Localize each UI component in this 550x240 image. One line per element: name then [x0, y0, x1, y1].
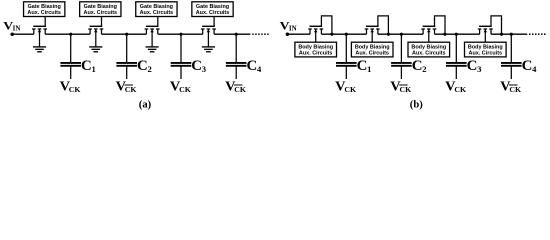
label VCK under C3 (b)	[445, 79, 466, 94]
wire rail (a) segment 4	[158, 33, 203, 35]
wire rail (b) segment 1	[287, 33, 310, 35]
wire rail (a) continuation dots	[252, 33, 269, 35]
svg-text:3: 3	[477, 64, 481, 74]
svg-text:Aux. Circuits: Aux. Circuits	[27, 10, 61, 16]
label VCK under C1 (a)	[60, 79, 81, 94]
svg-text:C: C	[137, 58, 148, 74]
label (a)	[139, 100, 152, 111]
capacitor C1 (b) with node wire	[336, 33, 357, 79]
svg-text:C: C	[357, 58, 368, 74]
svg-text:1: 1	[92, 64, 96, 74]
label C2 (b)	[412, 58, 427, 74]
ground G4	[202, 47, 215, 52]
label VCKbar under C2 (a)	[116, 79, 137, 94]
svg-text:1: 1	[367, 64, 371, 74]
ground G1	[33, 47, 46, 52]
label C1 (b)	[357, 58, 372, 74]
svg-text:2: 2	[422, 64, 426, 74]
svg-text:3: 3	[202, 64, 206, 74]
svg-text:CK: CK	[125, 85, 137, 94]
ground G2	[89, 47, 102, 52]
svg-text:Aux. Circuits: Aux. Circuits	[469, 50, 503, 56]
ground G3	[146, 47, 159, 52]
label VIN (b)	[280, 19, 297, 32]
label (b)	[410, 100, 423, 111]
transistor M4 (a)	[201, 17, 216, 47]
label VCK under C3 (a)	[170, 79, 191, 94]
transistor M3 (b)	[421, 16, 446, 42]
capacitor C1 (a) with node wire	[60, 33, 81, 79]
transistor M2 (a)	[88, 17, 103, 47]
svg-text:CK: CK	[454, 85, 466, 94]
svg-text:IN: IN	[13, 25, 21, 33]
capacitor C4 (a) with node wire	[226, 33, 247, 79]
node VIN (a) junction dot	[10, 32, 14, 36]
aux box U4 (b): Body Biasing Aux. Circuits	[465, 42, 507, 57]
aux box U2 (a): Gate Biasing Aux. Circuits	[80, 2, 121, 17]
label C1 (a)	[81, 58, 96, 74]
svg-text:C: C	[467, 58, 478, 74]
svg-text:Aux. Circuits: Aux. Circuits	[196, 10, 230, 16]
wire rail (b) segment 3	[378, 33, 423, 35]
svg-text:4: 4	[257, 64, 262, 74]
capacitor C2 (b) with node wire	[391, 33, 412, 79]
transistor M2 (b)	[365, 16, 390, 42]
wire rail (b) tail segment	[491, 33, 527, 35]
svg-text:CK: CK	[234, 85, 246, 94]
svg-text:4: 4	[532, 64, 537, 74]
svg-text:CK: CK	[179, 85, 191, 94]
svg-text:Aux. Circuits: Aux. Circuits	[84, 10, 118, 16]
svg-text:2: 2	[148, 64, 152, 74]
aux box U1 (a): Gate Biasing Aux. Circuits	[24, 2, 65, 17]
aux box U3 (a): Gate Biasing Aux. Circuits	[136, 2, 177, 17]
label VCKbar under C2 (b)	[390, 79, 411, 94]
capacitor C4 (b) with node wire	[501, 33, 522, 79]
wire rail (b) segment 2	[321, 33, 366, 35]
capacitor C3 (b) with node wire	[446, 33, 467, 79]
wire rail (a) segment 3	[102, 33, 147, 35]
svg-text:Aux. Circuits: Aux. Circuits	[299, 50, 333, 56]
svg-text:CK: CK	[344, 85, 356, 94]
aux box U1 (b): Body Biasing Aux. Circuits	[295, 42, 337, 57]
svg-text:IN: IN	[289, 25, 297, 33]
wire rail (a) tail segment	[214, 33, 250, 35]
label C3 (a)	[191, 58, 206, 74]
svg-text:(b): (b)	[410, 100, 423, 111]
wire rail (b) segment 4	[435, 33, 480, 35]
transistor M4 (b)	[478, 16, 503, 42]
capacitor C2 (a) with node wire	[116, 33, 137, 79]
svg-text:(a): (a)	[139, 100, 152, 111]
capacitor C3 (a) with node wire	[171, 33, 192, 79]
aux box U4 (a): Gate Biasing Aux. Circuits	[192, 2, 233, 17]
svg-text:C: C	[247, 58, 258, 74]
svg-text:CK: CK	[400, 85, 412, 94]
svg-text:Aux. Circuits: Aux. Circuits	[412, 50, 446, 56]
node VIN (b) junction dot	[286, 32, 290, 36]
label VCKbar under C4 (b)	[500, 79, 521, 94]
label C2 (a)	[137, 58, 152, 74]
label C4 (a)	[247, 58, 263, 74]
svg-text:C: C	[191, 58, 202, 74]
transistor M1 (b)	[308, 16, 333, 42]
label C3 (b)	[467, 58, 482, 74]
svg-text:CK: CK	[69, 85, 81, 94]
svg-text:C: C	[81, 58, 92, 74]
svg-text:Aux. Circuits: Aux. Circuits	[355, 50, 389, 56]
svg-text:C: C	[412, 58, 423, 74]
wire rail (a) segment 2	[45, 33, 90, 35]
aux box U2 (b): Body Biasing Aux. Circuits	[351, 42, 393, 57]
svg-text:CK: CK	[509, 85, 521, 94]
label VCKbar under C4 (a)	[225, 79, 246, 94]
label VIN (a)	[3, 19, 20, 32]
svg-text:C: C	[522, 58, 533, 74]
transistor M3 (a)	[145, 17, 160, 47]
label VCK under C1 (b)	[335, 79, 356, 94]
svg-text:Aux. Circuits: Aux. Circuits	[140, 10, 174, 16]
wire rail (a) segment 1	[12, 33, 34, 35]
aux box U3 (b): Body Biasing Aux. Circuits	[408, 42, 450, 57]
transistor M1 (a)	[32, 17, 47, 47]
wire rail (b) continuation dots	[529, 33, 546, 35]
label C4 (b)	[522, 58, 538, 74]
